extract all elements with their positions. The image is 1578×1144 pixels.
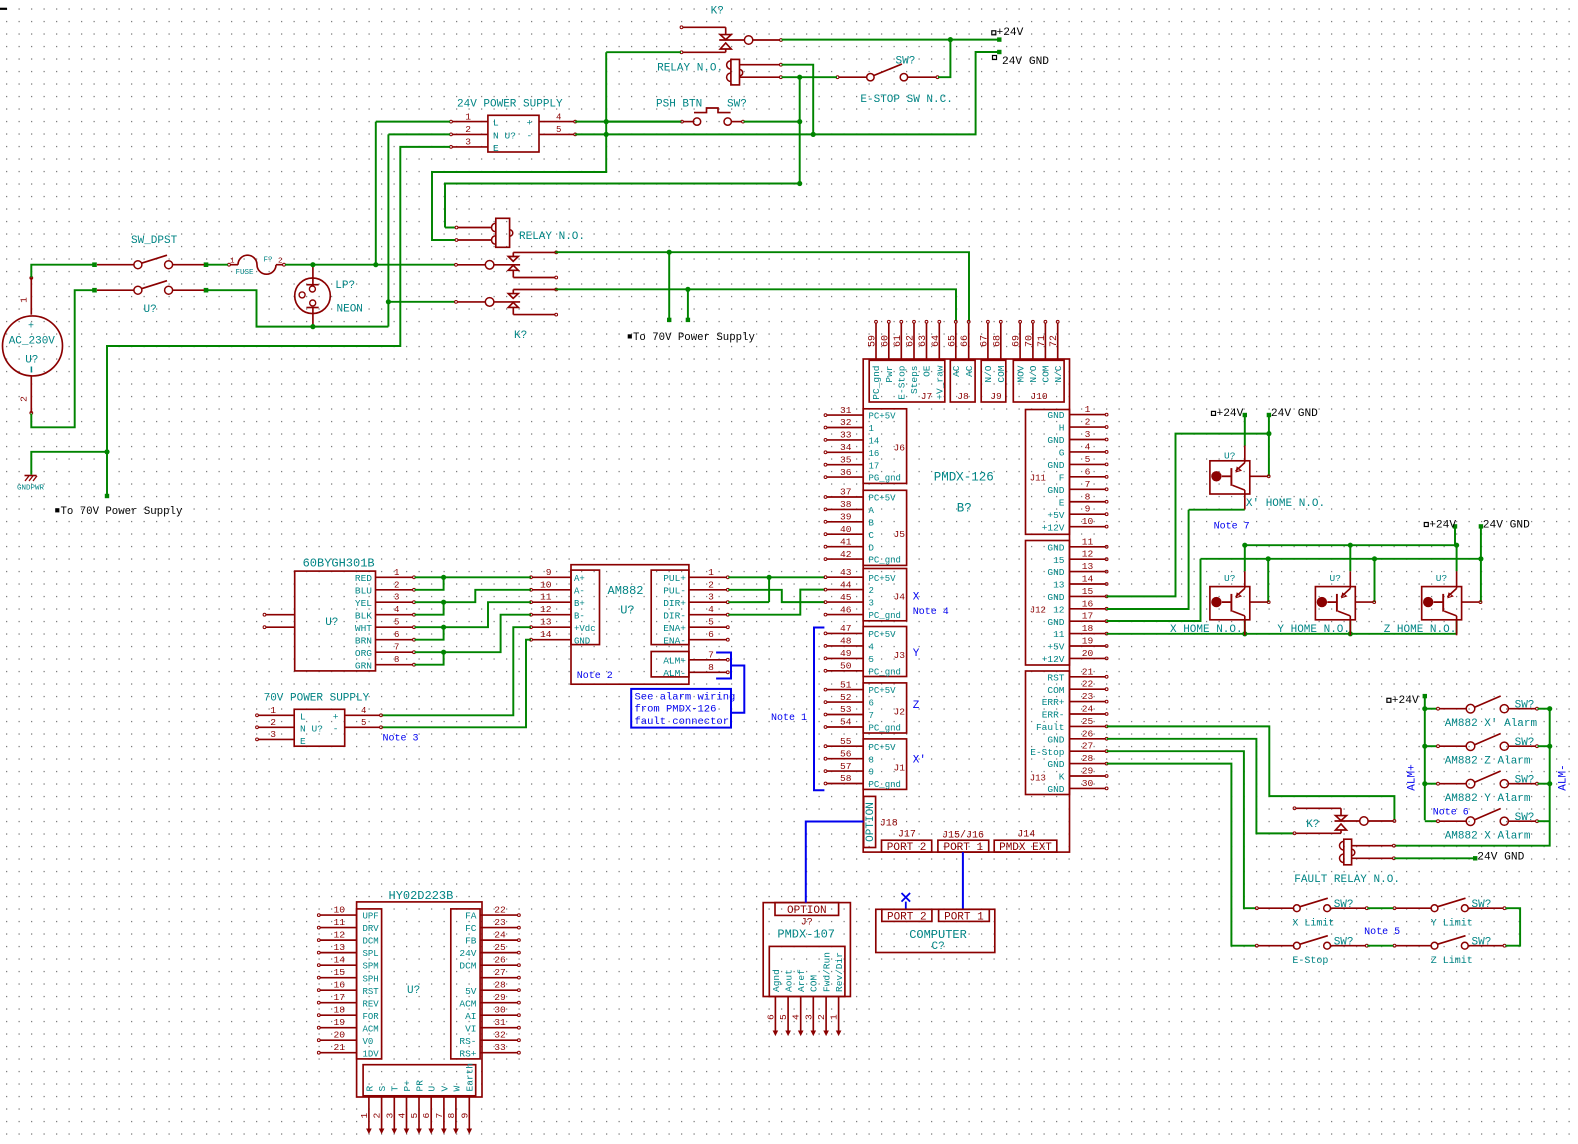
svg-text:GNDPWR: GNDPWR (17, 485, 45, 493)
svg-text:6: 6 (708, 629, 714, 640)
svg-text:YEL: YEL (355, 598, 372, 609)
svg-text:Z: Z (913, 700, 920, 712)
svg-text:9: 9 (1085, 504, 1091, 515)
svg-text:J12: J12 (1030, 606, 1046, 616)
svg-text:8: 8 (394, 655, 399, 665)
svg-text:4: 4 (361, 706, 366, 716)
svg-text:from PMDX-126: from PMDX-126 (635, 704, 717, 716)
svg-text:14: 14 (1082, 574, 1094, 585)
svg-text:GND: GND (1047, 734, 1064, 745)
svg-text:A+: A+ (574, 574, 585, 584)
svg-text:37: 37 (840, 487, 852, 498)
svg-text:X HOME N.O.: X HOME N.O. (1170, 624, 1243, 636)
svg-text:24V: 24V (459, 948, 476, 959)
svg-text:7: 7 (708, 649, 714, 660)
svg-text:2: 2 (394, 580, 399, 590)
svg-text:69: 69 (1012, 335, 1023, 347)
svg-text:7: 7 (869, 711, 874, 721)
svg-text:38: 38 (840, 499, 852, 510)
svg-text:U?: U? (620, 604, 634, 618)
svg-text:J4: J4 (893, 592, 905, 603)
svg-text:MOV: MOV (1015, 365, 1026, 382)
svg-text:5: 5 (556, 125, 561, 135)
svg-text:COM: COM (1047, 685, 1064, 696)
svg-text:62: 62 (906, 335, 917, 347)
svg-text:50: 50 (840, 661, 852, 672)
svg-text:RELAY N.O.: RELAY N.O. (657, 63, 723, 75)
svg-text:ERR-: ERR- (1042, 710, 1065, 721)
svg-text:5: 5 (1085, 454, 1091, 465)
svg-text:41: 41 (840, 536, 852, 547)
svg-text:OPTION: OPTION (865, 802, 877, 842)
svg-text:15: 15 (333, 967, 345, 978)
svg-text:21: 21 (1082, 666, 1094, 677)
svg-text:4: 4 (397, 1113, 408, 1119)
svg-text:16: 16 (333, 980, 345, 991)
svg-text:24V GND: 24V GND (1002, 56, 1049, 68)
svg-text:3: 3 (270, 729, 276, 740)
svg-text:11: 11 (1053, 629, 1065, 640)
svg-text:3: 3 (869, 599, 874, 609)
svg-text:20: 20 (333, 1030, 345, 1041)
svg-text:E-Stop: E-Stop (1030, 747, 1065, 758)
svg-text:DIR+: DIR+ (663, 598, 686, 609)
svg-text:Rev/Dir: Rev/Dir (834, 952, 845, 992)
svg-text:J14: J14 (1017, 830, 1035, 841)
svg-text:42: 42 (840, 549, 852, 560)
svg-text:ERR+: ERR+ (1042, 697, 1065, 708)
svg-text:U?: U? (407, 985, 420, 997)
svg-text:Y Limit: Y Limit (1431, 918, 1473, 930)
svg-text:2: 2 (278, 258, 283, 266)
svg-text:36: 36 (840, 467, 852, 478)
svg-text:C: C (869, 531, 875, 541)
svg-text:RST: RST (363, 987, 380, 997)
svg-text:OPTION: OPTION (787, 905, 827, 917)
svg-text:PUL+: PUL+ (663, 573, 686, 584)
svg-text:53: 53 (840, 704, 852, 715)
svg-text:26: 26 (494, 955, 506, 966)
svg-text:PC_gnd: PC_gnd (869, 556, 901, 566)
svg-text:22: 22 (494, 905, 506, 916)
svg-text:X': X' (913, 755, 926, 767)
svg-text:Note 7: Note 7 (1214, 521, 1250, 532)
svg-text:ALM-: ALM- (1558, 764, 1570, 790)
svg-text:F?: F? (264, 257, 273, 265)
svg-text:R: R (364, 1086, 375, 1092)
svg-text:+24V: +24V (997, 27, 1024, 39)
svg-text:43: 43 (840, 567, 852, 578)
svg-text:4: 4 (394, 605, 399, 615)
svg-text:PUL-: PUL- (663, 585, 686, 596)
svg-text:24V GND: 24V GND (1477, 852, 1524, 864)
svg-text:RELAY N.O.: RELAY N.O. (519, 231, 585, 243)
svg-text:51: 51 (840, 679, 852, 690)
svg-text:J10: J10 (1030, 391, 1048, 402)
svg-text:56: 56 (840, 748, 852, 759)
svg-text:5: 5 (869, 655, 874, 665)
svg-text:E: E (300, 736, 306, 747)
svg-text:AI: AI (465, 1011, 476, 1022)
svg-text:32: 32 (840, 417, 852, 428)
svg-text:S: S (377, 1086, 388, 1092)
svg-text:33: 33 (840, 430, 852, 441)
svg-text:B-: B- (574, 611, 585, 621)
svg-text:V0: V0 (363, 1037, 374, 1047)
svg-text:C?: C? (932, 941, 945, 953)
svg-text:35: 35 (840, 454, 852, 465)
svg-text:NEON: NEON (337, 304, 363, 316)
svg-text:PC_gnd: PC_gnd (869, 667, 901, 677)
svg-text:PORT 2: PORT 2 (887, 842, 927, 854)
svg-text:14: 14 (333, 955, 345, 966)
svg-text:26: 26 (1082, 728, 1094, 739)
svg-text:15: 15 (1053, 555, 1065, 566)
svg-text:PMDX-107: PMDX-107 (777, 928, 835, 942)
svg-text:fault connector: fault connector (635, 716, 730, 728)
svg-text:28: 28 (494, 980, 506, 991)
svg-text:64: 64 (931, 335, 942, 347)
svg-text:J17: J17 (898, 830, 916, 841)
svg-text:2: 2 (708, 579, 714, 590)
svg-text:57: 57 (840, 761, 852, 772)
svg-text:6: 6 (765, 1014, 776, 1020)
svg-text:N: N (300, 723, 306, 734)
svg-text:P+: P+ (402, 1080, 413, 1092)
svg-text:DCM: DCM (363, 937, 379, 947)
svg-text:G: G (1059, 448, 1065, 459)
svg-text:PC+5V: PC+5V (869, 743, 897, 753)
svg-text:Note 4: Note 4 (913, 607, 949, 618)
svg-text:PC_gnd: PC_gnd (869, 724, 901, 734)
svg-text:4: 4 (708, 604, 714, 615)
svg-text:GND: GND (1047, 410, 1064, 421)
svg-text:GND: GND (1047, 617, 1064, 628)
svg-text:1: 1 (270, 705, 276, 716)
svg-text:4: 4 (1085, 441, 1091, 452)
svg-text:SW_DPST: SW_DPST (131, 235, 178, 247)
svg-text:24V POWER SUPPLY: 24V POWER SUPPLY (457, 99, 563, 111)
svg-text:E-Stop: E-Stop (1292, 956, 1328, 967)
svg-text:J2: J2 (893, 707, 905, 718)
svg-text:21: 21 (333, 1042, 345, 1053)
svg-text:AC: AC (964, 365, 975, 377)
svg-text:+24V: +24V (1429, 520, 1456, 532)
svg-text:13: 13 (540, 617, 552, 628)
svg-text:18: 18 (1082, 623, 1094, 634)
svg-text:5: 5 (778, 1014, 789, 1020)
svg-text:+5V: +5V (1047, 510, 1064, 521)
svg-text:12: 12 (1082, 549, 1094, 560)
svg-text:22: 22 (1082, 679, 1094, 690)
svg-text:48: 48 (840, 636, 852, 647)
svg-text:3: 3 (384, 1113, 395, 1119)
svg-text:5: 5 (394, 618, 399, 628)
svg-text:60BYGH301B: 60BYGH301B (303, 557, 375, 571)
svg-text:ALM+: ALM+ (1407, 764, 1419, 790)
svg-text:U?: U? (1224, 450, 1235, 461)
svg-text:FB: FB (465, 936, 477, 947)
svg-text:68: 68 (992, 335, 1003, 347)
svg-text:3: 3 (394, 593, 399, 603)
svg-text:To 70V Power Supply: To 70V Power Supply (61, 506, 183, 518)
svg-text:3: 3 (708, 592, 714, 603)
svg-text:BLU: BLU (355, 585, 372, 596)
svg-text:X Limit: X Limit (1292, 918, 1334, 930)
svg-text:GND: GND (1047, 460, 1064, 471)
svg-text:Steps: Steps (909, 365, 920, 394)
svg-text:See alarm wiring: See alarm wiring (635, 691, 736, 703)
svg-text:Note 5: Note 5 (1364, 927, 1400, 938)
svg-text:14: 14 (869, 437, 880, 447)
svg-text:AM882 Z Alarm: AM882 Z Alarm (1445, 756, 1531, 768)
svg-text:PORT 2: PORT 2 (887, 911, 927, 923)
svg-text:+V_raw: +V_raw (935, 365, 946, 400)
svg-text:40: 40 (840, 524, 852, 535)
svg-text:16: 16 (1082, 598, 1094, 609)
svg-text:20: 20 (1082, 648, 1094, 659)
svg-text:49: 49 (840, 648, 852, 659)
svg-text:U?: U? (312, 723, 323, 734)
svg-text:10: 10 (540, 579, 552, 590)
svg-text:PC+5V: PC+5V (869, 574, 897, 584)
svg-text:3: 3 (465, 137, 471, 148)
svg-text:PMDX EXT: PMDX EXT (999, 842, 1052, 854)
svg-text:7: 7 (394, 643, 399, 653)
svg-text:ACM: ACM (459, 998, 476, 1009)
svg-text:Note 3: Note 3 (383, 734, 419, 745)
svg-text:1: 1 (230, 258, 235, 266)
svg-text:SW?: SW? (1515, 775, 1535, 787)
svg-text:2: 2 (372, 1113, 383, 1119)
svg-text:W: W (451, 1086, 462, 1092)
svg-text:23: 23 (1082, 691, 1094, 702)
svg-text:24V GND: 24V GND (1483, 520, 1530, 532)
svg-text:FAULT RELAY N.O.: FAULT RELAY N.O. (1294, 874, 1400, 886)
svg-text:Fwd/Run: Fwd/Run (822, 952, 833, 992)
svg-text:PC+5V: PC+5V (869, 494, 897, 504)
svg-text:9: 9 (546, 567, 552, 578)
svg-text:J8: J8 (957, 391, 969, 402)
svg-text:Y: Y (913, 648, 920, 660)
svg-text:5: 5 (361, 718, 366, 728)
svg-text:N/O: N/O (1028, 365, 1039, 382)
svg-text:+: + (333, 711, 339, 722)
svg-text:8: 8 (446, 1113, 457, 1119)
svg-text:B: B (869, 518, 875, 528)
svg-text:17: 17 (869, 461, 880, 471)
svg-text:63: 63 (918, 335, 929, 347)
svg-text:61: 61 (893, 335, 904, 347)
svg-text:Aref: Aref (796, 969, 807, 992)
svg-text:SW?: SW? (727, 99, 747, 111)
svg-text:HY02D223B: HY02D223B (389, 889, 454, 903)
svg-text:11: 11 (1082, 536, 1094, 547)
svg-text:7: 7 (434, 1113, 445, 1119)
svg-text:N: N (493, 130, 499, 141)
svg-text:L: L (300, 711, 306, 722)
svg-text:COM: COM (1041, 365, 1052, 382)
svg-text:3: 3 (803, 1014, 814, 1020)
svg-text:9: 9 (459, 1113, 470, 1119)
svg-text:UPF: UPF (363, 912, 379, 922)
svg-text:+24V: +24V (1392, 695, 1419, 707)
svg-text:1: 1 (19, 297, 30, 303)
svg-text:31: 31 (840, 405, 852, 416)
svg-text:4: 4 (791, 1014, 802, 1020)
svg-text:COMPUTER: COMPUTER (909, 928, 967, 942)
svg-text:5: 5 (708, 617, 714, 628)
svg-text:D: D (869, 543, 874, 553)
svg-text:SPM: SPM (363, 962, 379, 972)
svg-text:FOR: FOR (363, 1012, 380, 1022)
svg-text:K?: K? (514, 330, 527, 342)
svg-text:25: 25 (1082, 716, 1094, 727)
svg-text:PR: PR (414, 1080, 425, 1092)
svg-text:V: V (439, 1086, 450, 1092)
svg-text:14: 14 (540, 629, 552, 640)
svg-text:Note 6: Note 6 (1433, 808, 1469, 819)
svg-text:66: 66 (960, 335, 971, 347)
svg-text:J9: J9 (990, 391, 1002, 402)
svg-text:44: 44 (840, 579, 852, 590)
svg-text:27: 27 (494, 967, 506, 978)
svg-text:4: 4 (869, 643, 874, 653)
svg-text:U: U (427, 1086, 438, 1092)
svg-text:70V POWER SUPPLY: 70V POWER SUPPLY (264, 693, 370, 705)
svg-text:13: 13 (333, 942, 345, 953)
svg-text:6: 6 (1085, 466, 1091, 477)
svg-text:A: A (869, 506, 875, 516)
svg-text:L: L (493, 118, 499, 129)
svg-text:2: 2 (465, 124, 471, 135)
svg-text:19: 19 (333, 1017, 345, 1028)
svg-text:13: 13 (1082, 561, 1094, 572)
svg-text:Fault: Fault (1036, 722, 1065, 733)
svg-text:55: 55 (840, 736, 852, 747)
svg-text:-: - (527, 130, 533, 141)
svg-text:J11: J11 (1030, 473, 1046, 483)
svg-text:1: 1 (708, 567, 714, 578)
svg-text:30: 30 (1082, 778, 1094, 789)
svg-text:4: 4 (556, 112, 561, 122)
svg-text:SW?: SW? (1334, 899, 1354, 911)
svg-text:N/O: N/O (983, 365, 994, 382)
svg-text:U?: U? (144, 304, 157, 316)
svg-text:Agnd: Agnd (771, 969, 782, 992)
svg-text:Y HOME N.O.: Y HOME N.O. (1277, 624, 1350, 636)
svg-text:J3: J3 (893, 650, 905, 661)
svg-text:U?: U? (1224, 573, 1235, 584)
svg-text:13: 13 (1053, 580, 1065, 591)
svg-text:ACM: ACM (363, 1024, 379, 1034)
svg-text:15: 15 (1082, 586, 1094, 597)
svg-text:9: 9 (869, 768, 874, 778)
svg-text:J6: J6 (893, 442, 905, 453)
svg-text:2: 2 (1085, 417, 1091, 428)
svg-text:K: K (1059, 772, 1065, 783)
svg-text:1DV: 1DV (363, 1049, 380, 1059)
svg-text:8: 8 (869, 755, 874, 765)
svg-text:E: E (493, 143, 499, 154)
svg-text:U?: U? (505, 130, 516, 141)
svg-text:1: 1 (869, 424, 874, 434)
svg-text:32: 32 (494, 1030, 506, 1041)
svg-text:RS-: RS- (459, 1036, 476, 1047)
svg-text:31: 31 (494, 1017, 506, 1028)
svg-text:U?: U? (1330, 573, 1341, 584)
svg-text:27: 27 (1082, 741, 1094, 752)
svg-text:E-Stop: E-Stop (897, 365, 908, 400)
svg-text:PC_gnd: PC_gnd (871, 365, 882, 399)
svg-text:FC: FC (465, 923, 477, 934)
svg-text:2: 2 (19, 396, 30, 402)
svg-text:25: 25 (494, 942, 506, 953)
svg-text:RED: RED (355, 573, 372, 584)
svg-text:T: T (390, 1086, 401, 1092)
svg-text:GND: GND (1047, 592, 1064, 603)
svg-text:COM: COM (809, 975, 820, 992)
svg-text:PMDX-126: PMDX-126 (934, 471, 994, 485)
svg-text:VI: VI (465, 1023, 476, 1034)
svg-text:PC+5V: PC+5V (869, 686, 897, 696)
svg-text:1: 1 (359, 1113, 370, 1119)
svg-text:B?: B? (957, 502, 972, 516)
svg-text:GRN: GRN (355, 660, 372, 671)
svg-text:29: 29 (494, 992, 506, 1003)
svg-text:10: 10 (333, 905, 345, 916)
svg-text:PORT 1: PORT 1 (944, 911, 984, 923)
svg-text:SW?: SW? (896, 56, 916, 68)
svg-text:J7: J7 (921, 391, 933, 402)
svg-text:1: 1 (829, 1014, 840, 1020)
svg-text:SW?: SW? (1515, 737, 1535, 749)
svg-text:GND: GND (1047, 759, 1064, 770)
svg-text:GND: GND (1047, 542, 1064, 553)
svg-text:PC+5V: PC+5V (869, 412, 897, 422)
svg-text:Note 1: Note 1 (771, 713, 807, 724)
svg-text:ENA-: ENA- (663, 635, 686, 646)
svg-text:REV: REV (363, 999, 380, 1009)
svg-text:24V GND: 24V GND (1271, 408, 1318, 420)
svg-text:U?: U? (25, 355, 38, 367)
svg-text:SW?: SW? (1334, 936, 1354, 948)
svg-text:ALM+: ALM+ (663, 655, 686, 666)
svg-text:BLK: BLK (355, 610, 372, 621)
svg-text:30: 30 (494, 1005, 506, 1016)
svg-text:7: 7 (1085, 479, 1091, 490)
svg-text:COM: COM (996, 365, 1007, 382)
svg-text:PG_gnd: PG_gnd (869, 474, 901, 484)
svg-text:U?: U? (325, 617, 338, 629)
svg-text:2: 2 (816, 1014, 827, 1020)
svg-text:AM882 X Alarm: AM882 X Alarm (1445, 831, 1531, 843)
svg-text:SPL: SPL (363, 949, 379, 959)
svg-text:46: 46 (840, 604, 852, 615)
svg-text:DIR-: DIR- (663, 610, 686, 621)
svg-text:U?: U? (1436, 573, 1447, 584)
svg-text:GND: GND (1047, 567, 1064, 578)
svg-text:PC+5V: PC+5V (869, 630, 897, 640)
svg-text:B+: B+ (574, 599, 585, 609)
svg-text:RST: RST (1047, 672, 1064, 683)
svg-text:8: 8 (1085, 491, 1091, 502)
svg-text:+: + (28, 322, 34, 333)
svg-text:X' HOME N.O.: X' HOME N.O. (1246, 498, 1325, 510)
svg-text:67: 67 (979, 335, 990, 347)
svg-text:RS+: RS+ (459, 1048, 476, 1059)
svg-text:Note 2: Note 2 (577, 671, 613, 682)
